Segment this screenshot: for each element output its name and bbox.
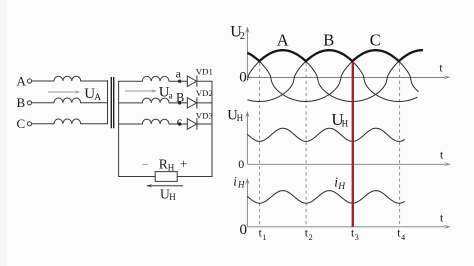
svg-text:H: H xyxy=(237,113,244,123)
svg-text:VD2: VD2 xyxy=(196,88,213,98)
svg-text:VD3: VD3 xyxy=(196,110,214,120)
svg-text:H: H xyxy=(169,192,176,202)
svg-text:H: H xyxy=(342,119,349,129)
svg-text:i: i xyxy=(233,174,237,189)
svg-text:−: − xyxy=(142,157,149,171)
svg-text:0: 0 xyxy=(238,157,244,171)
svg-text:B: B xyxy=(176,91,184,105)
svg-text:H: H xyxy=(168,163,175,173)
svg-text:0: 0 xyxy=(240,222,248,238)
svg-text:4: 4 xyxy=(401,233,405,242)
svg-text:0: 0 xyxy=(239,70,247,86)
svg-text:A: A xyxy=(17,73,27,88)
svg-text:B: B xyxy=(17,95,26,110)
svg-text:C: C xyxy=(370,30,381,49)
svg-text:H: H xyxy=(237,180,245,190)
svg-text:C: C xyxy=(17,116,26,131)
svg-text:2: 2 xyxy=(309,233,313,242)
svg-text:+: + xyxy=(180,157,188,172)
svg-text:2: 2 xyxy=(240,31,245,42)
svg-text:1: 1 xyxy=(262,233,266,242)
svg-text:3: 3 xyxy=(355,233,359,242)
svg-text:A: A xyxy=(94,93,101,103)
svg-text:VD1: VD1 xyxy=(196,67,213,77)
svg-text:R: R xyxy=(159,157,168,172)
svg-text:H: H xyxy=(337,182,346,192)
svg-text:a: a xyxy=(176,67,182,81)
svg-text:A: A xyxy=(277,30,289,49)
svg-text:B: B xyxy=(323,30,334,49)
svg-text:c: c xyxy=(177,114,182,128)
